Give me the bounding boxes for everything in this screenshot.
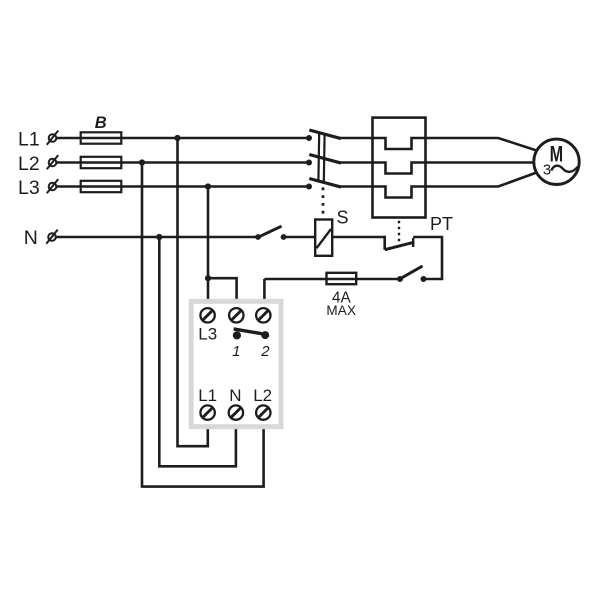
contactor lever pole 3 — [309, 179, 341, 188]
device terminal L1 bottom — [200, 405, 214, 419]
svg-text:L3: L3 — [18, 177, 40, 199]
time switch device box frame — [189, 299, 284, 429]
switch lever N line — [259, 226, 282, 237]
device switch dot 2 — [261, 331, 269, 339]
svg-text:1: 1 — [232, 343, 240, 360]
fuse phase L2 — [81, 157, 122, 168]
svg-text:N: N — [229, 386, 241, 405]
wire L3 contactor to motor through overload — [340, 172, 537, 197]
wire aux contact to terminal 2 — [264, 278, 400, 281]
wire N from terminal to switch — [56, 236, 258, 239]
auxiliary contact dot right — [421, 276, 427, 282]
svg-text:L3: L3 — [198, 324, 217, 343]
wire PT contact to right corner down — [413, 237, 442, 279]
device terminal L3 top — [200, 308, 214, 322]
svg-text:MAX: MAX — [326, 303, 356, 318]
svg-text:N: N — [24, 227, 38, 249]
wire L1 from terminal to contactor — [57, 137, 309, 140]
svg-text:PT: PT — [430, 214, 453, 234]
wire coil S to PT contact — [332, 236, 385, 239]
wire terminal 2 riser — [263, 279, 266, 312]
switch contact dot N left — [255, 234, 261, 240]
terminal N — [46, 230, 57, 244]
svg-text:L1: L1 — [18, 128, 40, 150]
terminal L1 — [47, 131, 58, 145]
fuse phase L3 — [81, 181, 122, 192]
wire L3 drop to device top terminal — [207, 187, 210, 313]
node L3 junction — [205, 183, 211, 189]
terminal L2 — [47, 155, 58, 169]
wire L1 drop to device bottom — [178, 138, 208, 446]
device switch dot 1 — [233, 331, 241, 339]
fuse B phase L1 — [81, 132, 122, 143]
contactor lever pole 2 — [309, 155, 341, 164]
thermal overload relay box — [373, 118, 426, 218]
PT contact step — [383, 236, 386, 250]
svg-text:L2: L2 — [253, 386, 272, 405]
overload trip dotted line — [398, 221, 400, 242]
svg-text:L2: L2 — [18, 153, 40, 175]
svg-text:M: M — [550, 142, 564, 167]
wire N drop to device bottom — [159, 237, 236, 466]
contactor contact dot pole 2 — [306, 160, 312, 166]
svg-text:S: S — [337, 207, 349, 227]
wire branch to terminal 1 — [208, 278, 237, 312]
PT contact lever — [385, 242, 415, 250]
auxiliary contact lever — [401, 266, 423, 279]
svg-text:B: B — [95, 114, 107, 132]
wire L2 drop to device bottom — [142, 163, 264, 487]
svg-text:L1: L1 — [198, 386, 217, 405]
coil S diagonal — [317, 229, 332, 248]
linkage dotted line to coil S — [322, 187, 325, 216]
wire L2 contactor to motor through overload — [340, 163, 534, 174]
contactor linkage bar left — [317, 132, 320, 181]
motor M1 circle — [534, 139, 579, 184]
wire switch to coil S — [284, 236, 316, 239]
switch contact dot N right — [281, 234, 287, 240]
contactor contact dot pole 1 — [306, 135, 312, 141]
wire L3 from terminal to contactor — [57, 185, 309, 188]
device terminal 1 top — [229, 308, 243, 322]
contactor linkage bar right — [323, 134, 326, 183]
node L3 to terminal-1 junction — [205, 275, 211, 281]
wire L2 from terminal to contactor — [57, 161, 309, 164]
coil S box — [315, 220, 332, 256]
auxiliary contact dot left — [397, 276, 403, 282]
device terminal L2 bottom — [256, 405, 270, 419]
time switch device box interior — [194, 304, 279, 424]
device terminal 2 top — [256, 308, 270, 322]
wire L1 contactor to motor through overload — [340, 138, 537, 151]
svg-text:2: 2 — [260, 343, 270, 360]
PT contact stop tick — [412, 238, 414, 247]
contactor contact dot pole 3 — [306, 184, 312, 190]
device switch lever — [234, 329, 262, 334]
terminal L3 — [47, 179, 58, 193]
node N junction — [156, 234, 162, 240]
fuse 4A — [327, 273, 357, 284]
svg-text:3: 3 — [543, 162, 551, 178]
node L1 junction — [174, 135, 180, 141]
device terminal N bottom — [229, 405, 243, 419]
node L2 junction — [139, 159, 145, 165]
contactor lever pole 1 — [309, 130, 341, 139]
motor tilde — [551, 166, 578, 172]
